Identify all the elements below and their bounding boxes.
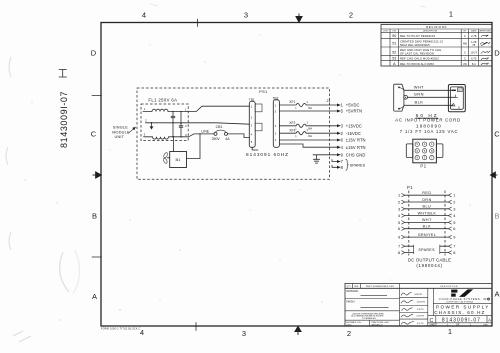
svg-text:±15V RTN: ±15V RTN xyxy=(346,145,366,150)
svg-text:+15VDC: +15VDC xyxy=(346,123,362,128)
wire BLK xyxy=(404,104,453,106)
terminal block TB1 xyxy=(249,98,262,150)
svg-text:RED: RED xyxy=(422,191,431,195)
wire TB2-2 with fuse XF3 xyxy=(279,132,337,135)
wire TB2-5 xyxy=(279,110,337,112)
revision table xyxy=(381,25,492,67)
svg-text:C: C xyxy=(464,50,466,54)
wire WHT xyxy=(405,221,449,223)
wire RED xyxy=(405,194,449,196)
svg-text:8: 8 xyxy=(453,250,455,255)
svg-text:N: N xyxy=(458,88,460,92)
svg-text:2: 2 xyxy=(453,200,455,205)
svg-text:DESCRIPTION: DESCRIPTION xyxy=(440,286,458,288)
svg-text:XF2: XF2 xyxy=(289,121,295,125)
svg-text:JW: JW xyxy=(463,62,467,66)
wire WHT xyxy=(404,89,454,91)
svg-text:.XXX±: .XXX± xyxy=(346,324,353,326)
FL1 top winding xyxy=(143,109,188,111)
svg-text:LINE: LINE xyxy=(201,129,209,133)
svg-text:B: B xyxy=(92,212,97,221)
TB1 bottom stub wire xyxy=(252,147,258,150)
svg-text:ORN: ORN xyxy=(422,198,432,202)
svg-text:GRN: GRN xyxy=(414,92,424,97)
svg-text:+5VRTN: +5VRTN xyxy=(346,109,362,114)
svg-text:1: 1 xyxy=(398,193,400,198)
svg-text:C: C xyxy=(464,34,466,38)
svg-text:QTY: QTY xyxy=(347,286,352,288)
size / number / rev row xyxy=(435,316,437,323)
centre arrows on frame xyxy=(93,14,498,336)
AC receptacle xyxy=(448,85,465,112)
svg-text:A: A xyxy=(92,292,97,301)
wire WHT/BLK xyxy=(405,215,449,217)
svg-text:6: 6 xyxy=(398,226,400,231)
spares bracket and label xyxy=(413,245,415,254)
svg-text:52: 52 xyxy=(392,50,396,54)
svg-text:7 1/2 FT 10A 125 VAC: 7 1/2 FT 10A 125 VAC xyxy=(400,129,459,134)
TB1 jumper tab b xyxy=(255,123,262,131)
four-phase logo xyxy=(432,288,434,315)
svg-text:SHEET: SHEET xyxy=(429,324,438,327)
line filter FL1 xyxy=(141,104,250,141)
svg-text:XF1: XF1 xyxy=(289,100,295,104)
svg-text:4A: 4A xyxy=(225,137,230,141)
svg-text:G: G xyxy=(458,105,460,109)
spare wire 8 xyxy=(405,252,414,254)
svg-text:SPARES: SPARES xyxy=(418,248,435,252)
svg-text:CHASSIS, 60 HZ: CHASSIS, 60 HZ xyxy=(434,310,485,315)
svg-text:6-79: 6-79 xyxy=(471,57,477,61)
svg-text:1: 1 xyxy=(453,193,455,198)
svg-text:5: 5 xyxy=(453,220,455,225)
svg-text:REV: REV xyxy=(484,325,489,327)
drawing border frame xyxy=(101,23,492,327)
svg-text:PER: PER xyxy=(354,286,359,288)
FL1 middle wire xyxy=(146,123,250,124)
wire TB2-1 with fuse XF1 xyxy=(279,103,337,106)
svg-text:BLU: BLU xyxy=(423,205,432,209)
P1 pin chevrons left xyxy=(401,193,404,197)
svg-text:6/20/78: 6/20/78 xyxy=(415,294,423,296)
svg-text:PART NUMBER/REF DES: PART NUMBER/REF DES xyxy=(366,285,395,288)
wire BLK xyxy=(405,228,449,230)
wire FL1 pin1 to TB1-1 xyxy=(188,106,249,111)
svg-text:3-1-79: 3-1-79 xyxy=(417,323,424,325)
label SINGLE MODULE UNIT xyxy=(112,126,130,140)
wire TB2-4 xyxy=(279,139,337,141)
wire GRN/YEL xyxy=(405,236,449,238)
svg-text:XF3: XF3 xyxy=(289,128,295,132)
wire BLU xyxy=(405,208,449,210)
svg-text:8143091 60HZ: 8143091 60HZ xyxy=(246,152,289,157)
connector P1 face view xyxy=(406,139,443,168)
svg-text:BLK: BLK xyxy=(423,225,432,229)
P1 cable left boundary xyxy=(408,191,410,256)
svg-text:53: 53 xyxy=(392,57,396,61)
svg-text:ZON: ZON xyxy=(383,31,388,33)
svg-text:50HZ REL MOD#4205: 50HZ REL MOD#4205 xyxy=(400,43,430,47)
svg-text:C: C xyxy=(494,130,500,139)
P1 pin chevrons right xyxy=(448,193,451,197)
wire GRN xyxy=(408,96,456,98)
svg-text:WHT: WHT xyxy=(414,85,424,90)
wire B1 right to CB1 line xyxy=(187,134,201,159)
svg-text:WHT: WHT xyxy=(422,218,432,222)
svg-text:11/10/78: 11/10/78 xyxy=(417,302,426,304)
svg-text:9: 9 xyxy=(398,235,400,240)
svg-text:DC OUTPUT CABLE: DC OUTPUT CABLE xyxy=(408,258,451,263)
svg-text:50: 50 xyxy=(392,34,396,38)
svg-text:REVISIONS: REVISIONS xyxy=(426,25,447,29)
wire FL1 pin3 to CB1 xyxy=(189,134,214,137)
svg-text:OF: OF xyxy=(456,324,460,327)
svg-text:CB1: CB1 xyxy=(216,125,223,129)
svg-text:2-78: 2-78 xyxy=(471,34,477,38)
connector J1 pin arrows and net labels xyxy=(337,104,341,169)
wire ORN xyxy=(405,201,449,203)
svg-text:SINGLE: SINGLE xyxy=(113,126,128,130)
svg-text:2-8-79: 2-8-79 xyxy=(417,309,424,311)
svg-text:B: B xyxy=(494,212,499,221)
svg-text:1: 1 xyxy=(449,10,453,19)
FL1 bottom winding xyxy=(144,137,189,139)
svg-text:DESCRIPTION: DESCRIPTION xyxy=(423,31,438,33)
svg-text:FL1 250V 6A: FL1 250V 6A xyxy=(148,98,177,103)
P1 cable right boundary xyxy=(444,191,446,256)
svg-text:PS1: PS1 xyxy=(259,89,268,94)
svg-text:8143009I-07: 8143009I-07 xyxy=(59,91,69,148)
svg-text:P1: P1 xyxy=(420,163,426,168)
material and finish cells xyxy=(399,288,401,326)
svg-text:(1980044): (1980044) xyxy=(416,263,442,268)
FL1 capacitor a xyxy=(171,112,175,137)
svg-text:1: 1 xyxy=(448,327,452,336)
svg-text:3: 3 xyxy=(242,329,246,338)
svg-text:GRN/YEL: GRN/YEL xyxy=(418,233,436,237)
svg-text:REL TO PROD ALO 8256: REL TO PROD ALO 8256 xyxy=(400,62,434,66)
svg-text:P1: P1 xyxy=(407,185,413,190)
circuit breaker CB1 xyxy=(201,125,230,141)
svg-text:LTR: LTR xyxy=(392,31,396,33)
svg-text:A: A xyxy=(494,290,499,299)
svg-text:1980090: 1980090 xyxy=(416,123,442,128)
wire CB1 to TB1-4 xyxy=(228,134,250,138)
spares bracket and label xyxy=(346,159,349,170)
spare wire stub J1-8 xyxy=(332,165,337,167)
svg-text:D: D xyxy=(494,49,500,58)
svg-text:C: C xyxy=(464,57,466,61)
svg-text:B1: B1 xyxy=(176,157,182,162)
svg-text:5: 5 xyxy=(398,220,400,225)
svg-text:ANGLES ±1°: ANGLES ±1° xyxy=(372,323,384,326)
wire TB2-3 with fuse XF2 xyxy=(279,124,337,127)
svg-text:A: A xyxy=(488,317,491,322)
svg-text:4: 4 xyxy=(142,11,146,20)
svg-text:2: 2 xyxy=(347,329,351,338)
TB1 jumper tab a xyxy=(255,104,262,112)
svg-text:3: 3 xyxy=(453,206,455,211)
spare wire stub J1-7 xyxy=(332,160,337,162)
wire B1 top to line xyxy=(173,137,175,152)
parts list header xyxy=(351,284,353,289)
AC plug xyxy=(394,84,408,111)
svg-text:2/13/79: 2/13/79 xyxy=(417,316,425,318)
svg-text:250V: 250V xyxy=(212,137,221,141)
svg-text:REL TO PILOT PER#4103: REL TO PILOT PER#4103 xyxy=(400,34,435,38)
svg-text:OF LAST CAL REVISION: OF LAST CAL REVISION xyxy=(400,52,434,56)
svg-text:FOUR-PHASE SYSTEMS, INC.: FOUR-PHASE SYSTEMS, INC. xyxy=(439,297,490,301)
svg-text:+5VDC: +5VDC xyxy=(346,103,360,108)
signature column xyxy=(427,288,429,326)
svg-text:7: 7 xyxy=(398,244,400,249)
chassis ground symbol xyxy=(313,155,319,163)
svg-text:SPARES: SPARES xyxy=(350,163,366,167)
svg-text:BLK: BLK xyxy=(415,99,424,104)
svg-text:51: 51 xyxy=(392,41,396,45)
zone tick marks xyxy=(92,19,198,331)
svg-text:DATE: DATE xyxy=(471,30,477,33)
svg-text:6: 6 xyxy=(453,226,455,231)
title block xyxy=(345,284,492,327)
svg-text:POWER SUPPLY: POWER SUPPLY xyxy=(436,305,490,310)
svg-text:APPROVED: APPROVED xyxy=(480,30,492,33)
svg-text:FORM 1000-2 TITLE BLOCK C: FORM 1000-2 TITLE BLOCK C xyxy=(101,329,141,331)
svg-text:MODULE: MODULE xyxy=(112,130,130,134)
svg-text:8: 8 xyxy=(398,250,400,255)
svg-text:REF CHG CHLS MOD #5202: REF CHG CHLS MOD #5202 xyxy=(400,57,439,61)
svg-text:UNIT: UNIT xyxy=(115,135,125,139)
zone numbers top xyxy=(91,10,500,339)
svg-text:AW: AW xyxy=(463,41,468,45)
svg-text:±15V RTN: ±15V RTN xyxy=(346,138,366,143)
svg-text:-15VDC: -15VDC xyxy=(346,131,361,136)
svg-text:9: 9 xyxy=(453,235,455,240)
FL1 earth ground xyxy=(151,123,153,127)
single module unit dashed enclosure xyxy=(137,88,330,179)
svg-text:WHT/BLK: WHT/BLK xyxy=(418,211,437,215)
svg-text:8-4: 8-4 xyxy=(472,62,476,66)
svg-text:2: 2 xyxy=(398,200,400,205)
FL1 capacitor b xyxy=(179,112,183,137)
svg-text:7: 7 xyxy=(453,244,455,249)
svg-text:FINISH: FINISH xyxy=(346,300,354,303)
margin microfilm H mark xyxy=(59,70,67,78)
svg-text:MATERIAL: MATERIAL xyxy=(346,290,359,293)
wire TB2 bottom stepped to J1-4 xyxy=(279,144,337,147)
spare wire 7 xyxy=(405,245,414,247)
svg-text:2: 2 xyxy=(349,11,353,20)
svg-text:C: C xyxy=(91,130,97,139)
svg-text:TOLERANCES:: TOLERANCES: xyxy=(362,317,377,320)
svg-text:3: 3 xyxy=(244,11,248,20)
fan B1 xyxy=(163,152,187,168)
svg-text:D: D xyxy=(91,49,97,58)
svg-text:AC INPUT POWER CORD: AC INPUT POWER CORD xyxy=(395,118,461,123)
wire chassis gnd to J1-9 xyxy=(313,154,337,156)
svg-text:10-27: 10-27 xyxy=(470,50,477,54)
svg-text:3: 3 xyxy=(398,206,400,211)
terminal block TB2 xyxy=(273,96,280,147)
svg-text:CHS GND: CHS GND xyxy=(346,152,366,157)
